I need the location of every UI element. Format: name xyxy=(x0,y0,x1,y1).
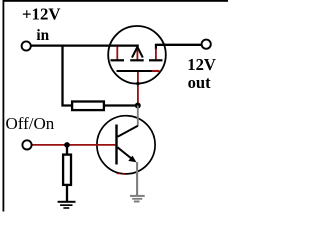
svg-text:+12V: +12V xyxy=(22,4,60,23)
svg-text:out: out xyxy=(188,73,212,92)
svg-text:Off/On: Off/On xyxy=(6,114,55,133)
svg-text:12V: 12V xyxy=(187,55,216,74)
svg-text:in: in xyxy=(36,27,49,44)
